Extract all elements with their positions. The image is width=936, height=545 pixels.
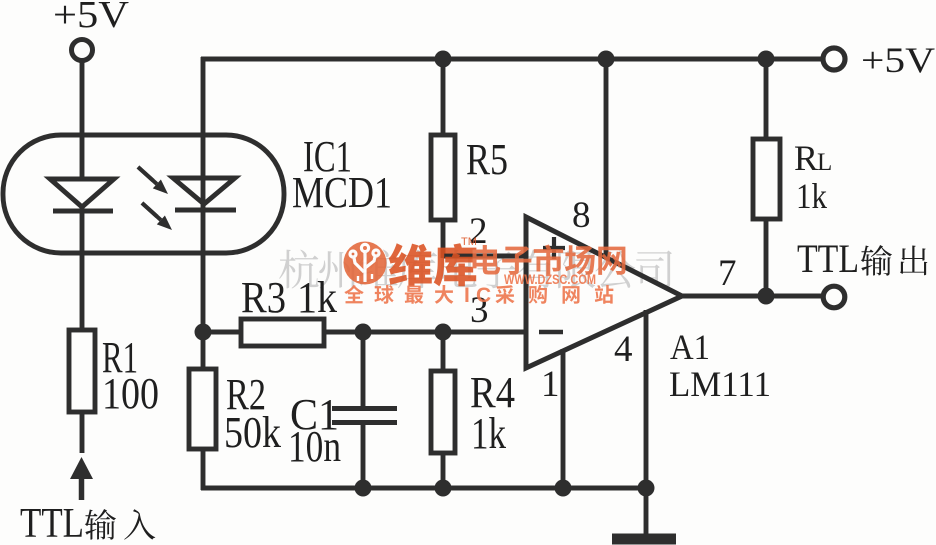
svg-text:MCD1: MCD1: [292, 168, 392, 217]
svg-text:C: C: [476, 284, 491, 307]
optocoupler IC1 body: [3, 135, 284, 253]
wire +5V to LED anode: [80, 60, 85, 181]
pin label 1: [541, 364, 560, 405]
svg-text:+5V: +5V: [861, 40, 935, 80]
svg-text:WWW.DZSC.COM: WWW.DZSC.COM: [504, 272, 596, 287]
wire R5 to pin2: [443, 220, 526, 258]
junction output-RL: [758, 288, 775, 305]
label TTL input: [20, 501, 155, 545]
svg-text:R: R: [794, 138, 818, 178]
pin label 4: [614, 329, 633, 370]
svg-text:4: 4: [614, 329, 633, 370]
svg-text:A1: A1: [670, 327, 710, 367]
svg-text:LM111: LM111: [669, 364, 771, 404]
resistor R1: [69, 330, 159, 453]
photodiode of IC1: [173, 178, 236, 210]
junction node3 left: [195, 324, 212, 341]
pin label 8: [572, 195, 591, 236]
terminal +5V (left): [53, 0, 130, 61]
terminal +5V (right): [823, 40, 935, 80]
op-amp comparator A1: [526, 217, 682, 368]
wire output pin 7: [681, 294, 824, 299]
svg-text:+5V: +5V: [53, 0, 130, 36]
junction rail-pin8: [598, 51, 615, 68]
light arrow lower: [142, 203, 172, 230]
svg-text:7: 7: [718, 253, 737, 294]
wire +5V rail to pin 8: [604, 59, 609, 259]
resistor R3: [241, 273, 337, 346]
capacitor C1: [288, 332, 397, 490]
svg-text:8: 8: [572, 195, 591, 236]
light arrow upper: [138, 167, 168, 194]
LED input diode of IC1: [50, 179, 114, 211]
TTL input arrow: [70, 457, 93, 500]
junction rail-C1: [355, 480, 372, 497]
pin label 3: [470, 290, 489, 331]
wire node 3 (inverting input line): [203, 330, 526, 335]
svg-text:TM: TM: [461, 236, 477, 248]
watermark gray company text: [279, 250, 672, 289]
svg-text:R3: R3: [241, 273, 286, 322]
svg-text:1k: 1k: [796, 176, 827, 216]
junction rail-RL: [758, 51, 775, 68]
wire photodiode anode up to +5V rail and down to node 3: [201, 57, 206, 334]
svg-text:50k: 50k: [224, 408, 281, 457]
svg-text:100: 100: [102, 369, 159, 418]
svg-text:1k: 1k: [471, 409, 506, 458]
label A1 LM111: [669, 327, 771, 404]
wire bottom rail: [201, 486, 648, 491]
terminal TTL output: [823, 286, 845, 308]
junction node3 R4: [435, 324, 452, 341]
svg-text:I: I: [464, 284, 470, 307]
svg-text:10n: 10n: [288, 422, 341, 471]
resistor R4: [431, 332, 515, 490]
svg-text:L: L: [817, 149, 832, 176]
junction rail-R4: [435, 480, 452, 497]
ground: [612, 534, 676, 545]
svg-text:TTL: TTL: [797, 236, 859, 281]
wire +5V top rail: [201, 57, 824, 62]
wire LED cathode to R1: [80, 207, 85, 332]
junction rail-pin1: [555, 480, 572, 497]
pin label 2: [469, 211, 488, 252]
wire rail to R5: [441, 59, 446, 137]
plus input mark: [543, 237, 565, 259]
wire pin 4 to ground: [644, 310, 649, 536]
watermark dzsc logo: [344, 236, 626, 307]
wire pin 1 to rail: [561, 349, 566, 490]
label IC1 MCD1: [292, 132, 392, 217]
svg-text:R5: R5: [466, 135, 508, 184]
pin label 7: [718, 253, 737, 294]
junction node3 C1: [355, 324, 372, 341]
minus input mark: [539, 330, 563, 335]
svg-text:1: 1: [541, 364, 560, 405]
junction rail-R5: [435, 51, 452, 68]
resistor R5: [431, 135, 508, 220]
label TTL output: [797, 236, 927, 281]
svg-text:1k: 1k: [297, 273, 337, 322]
resistor R2: [189, 332, 281, 490]
junction rail-pin4: [638, 480, 655, 497]
resistor RL: [753, 59, 832, 296]
svg-text:TTL: TTL: [20, 501, 84, 545]
